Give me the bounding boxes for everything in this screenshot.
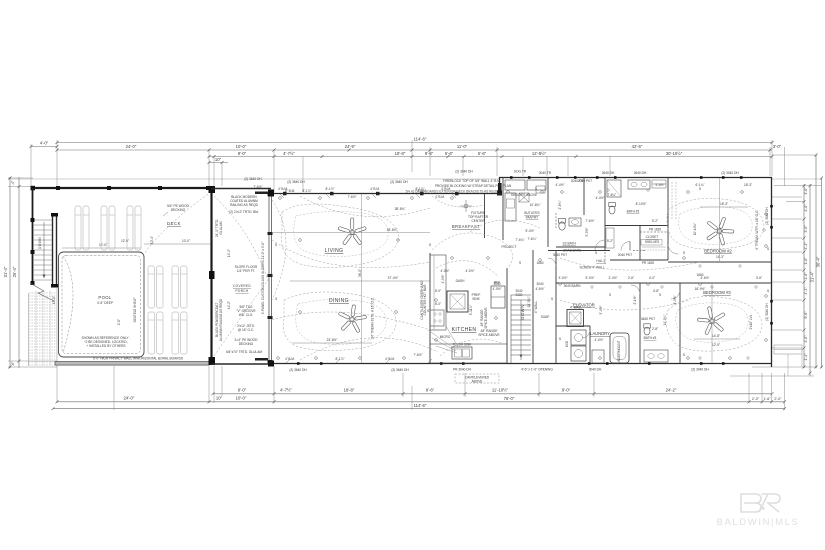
arc bedroom3 blob xyxy=(666,297,762,352)
vertical dim line through living/dining xyxy=(361,194,363,363)
fan bedroom2 xyxy=(706,217,733,246)
svg-text:24'-0": 24'-0" xyxy=(126,144,137,149)
svg-text:4" WALL: 4" WALL xyxy=(534,301,538,314)
svg-text:GLULAM: GLULAM xyxy=(219,221,223,234)
top right 3'-0" ext verticals xyxy=(784,147,786,186)
svg-text:3040: 3040 xyxy=(493,282,500,286)
svg-text:4'-7½": 4'-7½" xyxy=(283,151,295,156)
arc porch sweeps xyxy=(214,196,268,280)
svg-text:4'-4½": 4'-4½" xyxy=(555,183,564,187)
porch bottom wall segment xyxy=(211,363,271,365)
svg-text:76'-0": 76'-0" xyxy=(504,396,515,401)
svg-text:5'-9½": 5'-9½" xyxy=(599,305,603,314)
svg-text:4'-0½": 4'-0½" xyxy=(492,287,501,291)
svg-text:4'-6" DEEP: 4'-6" DEEP xyxy=(97,301,113,305)
svg-text:BUTLER'S: BUTLER'S xyxy=(524,211,539,215)
svg-text:37'-4½": 37'-4½" xyxy=(388,276,399,280)
bath2 toilet xyxy=(609,206,615,214)
top dim line 4'-0" xyxy=(31,146,57,148)
bath3 vanity xyxy=(644,350,668,362)
svg-text:9'-6": 9'-6" xyxy=(804,311,808,319)
svg-text:8'-10½": 8'-10½" xyxy=(636,202,647,206)
svg-text:HALL: HALL xyxy=(596,259,606,263)
svg-text:ABOVE: ABOVE xyxy=(472,380,483,384)
svg-text:16'-9½": 16'-9½" xyxy=(695,287,706,291)
svg-text:14'-2": 14'-2" xyxy=(227,249,231,257)
fan dining xyxy=(338,305,366,333)
svg-text:30'-10½": 30'-10½" xyxy=(666,151,683,156)
svg-text:PORCH: PORCH xyxy=(235,289,248,293)
svg-text:(2) 3640 DH: (2) 3640 DH xyxy=(289,368,307,372)
elevator shaft xyxy=(567,310,584,327)
right dim ticks xyxy=(803,154,824,375)
svg-text:7'-6¼": 7'-6¼" xyxy=(527,237,536,241)
half bath toilet xyxy=(559,222,565,230)
svg-text:5'-5½": 5'-5½" xyxy=(585,227,589,236)
svg-text:$: $ xyxy=(427,309,429,313)
wall half bath bottom xyxy=(556,246,605,248)
svg-text:(2) 3040 DH: (2) 3040 DH xyxy=(765,207,769,225)
svg-text:SOAP: SOAP xyxy=(541,315,550,319)
house right wall xyxy=(771,177,773,367)
svg-text:$: $ xyxy=(275,243,277,247)
svg-text:4'-1": 4'-1" xyxy=(804,242,808,250)
lounge chairs upper row xyxy=(75,206,141,250)
svg-text:10'-4": 10'-4" xyxy=(150,236,154,244)
svg-text:(2) 3640 DH: (2) 3640 DH xyxy=(244,177,262,181)
arc breakfast to pantry xyxy=(470,220,540,232)
svg-text:5'-8½": 5'-8½" xyxy=(655,183,664,187)
svg-text:LAUNDRY: LAUNDRY xyxy=(590,331,610,336)
top dim line 24'-0" row xyxy=(57,149,772,151)
svg-text:4'-0": 4'-0" xyxy=(804,335,808,343)
misc interior dim row y=285 xyxy=(440,245,544,315)
svg-text:9'-0": 9'-0" xyxy=(562,388,571,393)
svg-text:2'x10" LVL: 2'x10" LVL xyxy=(749,314,753,329)
house bottom wall xyxy=(271,363,772,365)
svg-text:WD. CLG.: WD. CLG. xyxy=(239,313,254,317)
left dim line 26'-4" xyxy=(18,177,20,368)
svg-text:RAILING AS REQD: RAILING AS REQD xyxy=(230,203,259,207)
pool outline xyxy=(59,252,145,357)
svg-text:4'-6" x 1'-0" OPENING: 4'-6" x 1'-0" OPENING xyxy=(521,368,553,372)
stair treads xyxy=(34,220,52,280)
svg-text:CANTILEVER OVERHANG: CANTILEVER OVERHANG xyxy=(420,280,424,320)
svg-text:12'-9": 12'-9" xyxy=(712,343,720,347)
porch posts xyxy=(209,186,216,365)
svg-text:SHELVES: SHELVES xyxy=(645,240,659,244)
svg-text:24'-9": 24'-9" xyxy=(345,144,356,149)
svg-text:31'-4": 31'-4" xyxy=(810,271,815,282)
svg-text:9'-6": 9'-6" xyxy=(425,151,434,156)
left dim ticks xyxy=(9,177,21,369)
svg-text:2640 DH: 2640 DH xyxy=(634,171,647,175)
svg-text:2'-0": 2'-0" xyxy=(774,397,782,401)
deck sweep arc xyxy=(144,194,208,254)
svg-text:ALUMNM RAILING AS REQD: ALUMNM RAILING AS REQD xyxy=(219,298,223,341)
svg-text:4' B.M.: 4' B.M. xyxy=(370,187,380,191)
svg-text:10'-10¼": 10'-10¼" xyxy=(693,223,697,236)
svg-text:3040 DH: 3040 DH xyxy=(589,368,602,372)
svg-text:2'-1½": 2'-1½" xyxy=(633,295,637,304)
svg-text:9'-0": 9'-0" xyxy=(238,151,247,156)
top dim tick marks xyxy=(30,141,774,164)
arc dining bottom sweep xyxy=(300,338,438,360)
svg-text:1'-6": 1'-6" xyxy=(804,272,808,280)
bottom wall window ticks xyxy=(297,362,725,365)
svg-text:DECK: DECK xyxy=(167,221,181,226)
svg-text:$: $ xyxy=(767,247,769,251)
svg-text:18'-8": 18'-8" xyxy=(395,151,406,156)
right wall window ticks xyxy=(770,205,773,325)
svg-text:31'-4": 31'-4" xyxy=(3,266,8,277)
svg-text:$: $ xyxy=(551,297,553,301)
svg-text:3'-0": 3'-0" xyxy=(773,144,782,149)
breakfast arc xyxy=(432,196,484,207)
svg-text:PROJECT: PROJECT xyxy=(502,245,517,249)
svg-text:3040 PKT: 3040 PKT xyxy=(553,253,567,257)
svg-text:8'-1⅞": 8'-1⅞" xyxy=(415,187,424,191)
svg-text:4'-9½": 4'-9½" xyxy=(441,274,445,283)
svg-text:1660: 1660 xyxy=(696,273,703,277)
right dim line 36'-4" xyxy=(815,155,817,368)
deck left wall xyxy=(32,188,34,285)
svg-text:$: $ xyxy=(683,251,685,255)
svg-text:BATH #2: BATH #2 xyxy=(627,210,640,214)
svg-text:$: $ xyxy=(609,293,611,297)
inner arc ring dining xyxy=(296,299,386,344)
svg-text:3'-6": 3'-6" xyxy=(756,276,762,280)
interior door arcs xyxy=(548,240,680,338)
svg-text:DINING: DINING xyxy=(329,298,349,304)
svg-text:3460 PKT: 3460 PKT xyxy=(641,317,655,321)
arc living to dining sweep xyxy=(272,240,430,268)
fridge box xyxy=(491,286,505,308)
svg-text:14'-8": 14'-8" xyxy=(712,334,720,338)
breakfast/butler partition xyxy=(484,194,486,238)
leader ticks row along top wall xyxy=(280,194,456,363)
pool inner water line xyxy=(62,256,141,354)
hall misc marks xyxy=(591,189,765,359)
svg-text:$: $ xyxy=(767,289,769,293)
wall elevator lobby xyxy=(556,325,590,327)
washer dryer xyxy=(571,330,586,345)
svg-text:7'-6¼": 7'-6¼" xyxy=(515,238,524,242)
right dim line inner xyxy=(803,184,805,368)
svg-text:4' B.M.: 4' B.M. xyxy=(278,187,288,191)
svg-text:42'-6": 42'-6" xyxy=(632,144,643,149)
svg-text:5'-11¾": 5'-11¾" xyxy=(469,305,473,316)
svg-text:COVERED: COVERED xyxy=(233,284,251,288)
svg-text:12'-0": 12'-0" xyxy=(121,239,129,243)
svg-text:SOG TR: SOG TR xyxy=(514,170,527,174)
svg-text:8'-1⅞": 8'-1⅞" xyxy=(302,189,311,193)
svg-text:4'-0": 4'-0" xyxy=(649,276,655,280)
wall closet shelf line xyxy=(640,231,668,233)
hall extra texts xyxy=(536,196,703,315)
top wall jog xyxy=(499,177,501,194)
svg-text:1'-6": 1'-6" xyxy=(804,187,808,195)
svg-text:18'-3": 18'-3" xyxy=(744,183,752,187)
bath2 vanity xyxy=(628,180,650,189)
lounge chairs right of pool xyxy=(148,266,187,354)
svg-text:4'-0½": 4'-0½" xyxy=(594,338,603,342)
svg-text:6'-1¼": 6'-1¼" xyxy=(695,183,704,187)
svg-text:1660: 1660 xyxy=(536,261,543,265)
closet rod lines xyxy=(642,247,666,250)
svg-text:7'-6½": 7'-6½" xyxy=(585,219,594,223)
svg-text:36'-4": 36'-4" xyxy=(816,256,821,267)
wall butlers pantry left xyxy=(502,177,504,240)
svg-text:4'-0": 4'-0" xyxy=(804,204,808,212)
svg-text:CENTER: CENTER xyxy=(471,219,485,223)
svg-text:36'-0": 36'-0" xyxy=(358,269,362,277)
svg-text:5'-6": 5'-6" xyxy=(445,151,454,156)
svg-text:GRAB BARS: GRAB BARS xyxy=(563,249,582,253)
svg-text:LIVING: LIVING xyxy=(325,248,344,254)
right dim line outer xyxy=(821,178,823,368)
svg-text:5'-6": 5'-6" xyxy=(478,151,487,156)
svg-text:8'-0": 8'-0" xyxy=(435,302,441,306)
wall hall top xyxy=(548,250,610,252)
kitchen island xyxy=(447,291,468,312)
svg-text:18'-3": 18'-3" xyxy=(720,202,728,206)
svg-text:9'-0": 9'-0" xyxy=(238,388,247,393)
logo B xyxy=(741,494,761,512)
svg-text:24" TREAM JSTS. A 16" O.C.: 24" TREAM JSTS. A 16" O.C. xyxy=(371,297,375,339)
svg-text:5'-4½": 5'-4½" xyxy=(525,229,534,233)
vertical dim line bedroom2 xyxy=(718,178,720,262)
svg-text:24'-0": 24'-0" xyxy=(124,395,135,400)
svg-text:2'-4½": 2'-4½" xyxy=(608,276,617,280)
kitchen counters left xyxy=(430,255,446,330)
wall bath3/bedroom3 xyxy=(679,283,681,363)
svg-text:3040 TR: 3040 TR xyxy=(539,171,552,175)
top dimension labels xyxy=(40,137,782,162)
svg-text:1/4" PER FT.: 1/4" PER FT. xyxy=(237,269,255,273)
svg-text:CLOSET: CLOSET xyxy=(646,235,659,239)
kitchen bottom counter xyxy=(430,344,507,363)
logo dot xyxy=(762,507,765,510)
inner arc ring bedroom3 xyxy=(676,303,748,342)
svg-text:14'-0¾": 14'-0¾" xyxy=(663,315,667,326)
wall bath2 left xyxy=(604,177,606,250)
svg-text:2'-6": 2'-6" xyxy=(628,276,634,280)
vertical dim line bedroom3 xyxy=(711,283,713,363)
fan living xyxy=(338,218,367,245)
arc living blob xyxy=(281,204,398,268)
svg-text:7'-6½": 7'-6½" xyxy=(253,185,262,189)
pantry counter left xyxy=(505,193,516,221)
svg-text:2640 DH: 2640 DH xyxy=(602,171,615,175)
svg-text:KITCHEN: KITCHEN xyxy=(452,327,477,333)
svg-text:$: $ xyxy=(275,297,277,301)
svg-text:114'-6": 114'-6" xyxy=(414,403,427,408)
svg-text:BEDROOM #2: BEDROOM #2 xyxy=(704,249,732,254)
svg-text:$: $ xyxy=(519,261,521,265)
svg-text:18'-8": 18'-8" xyxy=(344,388,355,393)
svg-text:2'-0": 2'-0" xyxy=(752,397,760,401)
svg-text:12'-8½": 12'-8½" xyxy=(532,151,547,156)
svg-text:-4": -4" xyxy=(11,180,15,185)
SE corner stoop xyxy=(774,345,802,376)
pool curved water edge xyxy=(63,256,73,353)
wall bedroom2 bottom xyxy=(668,261,772,263)
corner jamb black xyxy=(498,183,502,193)
bottom dim line row3 total xyxy=(53,408,785,410)
svg-text:8'-1⅞": 8'-1⅞" xyxy=(325,187,334,191)
left dim line 31'-4" xyxy=(9,177,11,368)
bedroom2 closet dashes xyxy=(672,182,676,220)
wall half bath right xyxy=(583,177,585,215)
svg-text:BEDROOM #3: BEDROOM #3 xyxy=(703,290,731,295)
exterior stair rails xyxy=(53,215,57,287)
svg-text:SPICE ABOVE: SPICE ABOVE xyxy=(478,333,499,337)
bath2 door arc xyxy=(621,242,630,251)
wall kitchen/stair xyxy=(506,268,508,363)
svg-text:$: $ xyxy=(683,353,685,357)
svg-text:(2) 3040 DH: (2) 3040 DH xyxy=(721,171,739,175)
svg-text:SINK: SINK xyxy=(472,297,480,301)
NW house corner block xyxy=(268,190,274,197)
svg-text:1'-4": 1'-4" xyxy=(804,353,808,361)
svg-text:(2) 3040 DH: (2) 3040 DH xyxy=(455,170,473,174)
svg-text:7'-6½": 7'-6½" xyxy=(347,195,356,199)
hall dim row xyxy=(558,276,762,280)
svg-text:8'-0": 8'-0" xyxy=(435,289,441,293)
svg-text:MICRO: MICRO xyxy=(440,335,451,339)
svg-text:BALDWIN|MLS: BALDWIN|MLS xyxy=(717,517,800,528)
svg-text:4'-8": 4'-8" xyxy=(653,289,659,293)
house top wall (living, glass) xyxy=(271,193,500,195)
svg-text:DASH: DASH xyxy=(456,279,466,283)
bottom dimension labels xyxy=(124,388,783,408)
inner arc ring bedroom2 xyxy=(679,207,753,244)
wall butlers pantry right xyxy=(547,177,549,247)
svg-text:FIREBLOCK TOP OF 3/4" WALL: FIREBLOCK TOP OF 3/4" WALL 4" B.M. xyxy=(443,179,501,183)
stair bottom rail arrow xyxy=(520,300,522,360)
house top wall (right section) xyxy=(499,177,772,179)
svg-text:PR 1620: PR 1620 xyxy=(642,261,655,265)
svg-text:2'-8¾": 2'-8¾" xyxy=(558,200,562,209)
svg-text:5'-2": 5'-2" xyxy=(652,219,658,223)
svg-text:4'-0": 4'-0" xyxy=(40,141,49,146)
svg-text:4'-7½": 4'-7½" xyxy=(280,388,292,393)
wall closet bottom xyxy=(610,259,668,261)
svg-text:1/2 BATH: 1/2 BATH xyxy=(562,242,576,246)
laundry counter xyxy=(592,350,604,363)
svg-text:2040 PKT: 2040 PKT xyxy=(578,179,592,183)
arc dining blob xyxy=(283,292,396,351)
deck railing posts xyxy=(31,186,211,191)
svg-text:10'-0": 10'-0" xyxy=(236,395,247,400)
inner arc ring living xyxy=(294,211,388,256)
wall laundry/bath3 divider xyxy=(639,283,641,363)
svg-text:3040 BARN: 3040 BARN xyxy=(564,284,582,288)
pantry sink xyxy=(507,199,515,208)
svg-text:10": 10" xyxy=(216,395,223,400)
svg-text:SGD: SGD xyxy=(516,293,524,297)
wall hall left / elevator xyxy=(555,250,557,363)
bottom dim line row2 xyxy=(57,401,785,403)
svg-text:(2) 3640 DH: (2) 3640 DH xyxy=(287,180,305,184)
svg-text:+ INSTALLED BY OTHERS: + INSTALLED BY OTHERS xyxy=(86,344,125,348)
wall hall bottom xyxy=(556,282,680,284)
svg-text:DECKING: DECKING xyxy=(239,342,254,346)
bottom dim line row1 xyxy=(213,393,772,395)
top wall window ticks right xyxy=(510,176,743,179)
fan bedroom3 xyxy=(697,306,725,334)
svg-text:$: $ xyxy=(659,293,661,297)
bath3 toilet xyxy=(644,327,650,335)
svg-text:5'-0½": 5'-0½" xyxy=(585,276,594,280)
svg-text:12'-0": 12'-0" xyxy=(99,243,107,247)
svg-text:(2) 3640 DH: (2) 3640 DH xyxy=(391,368,409,372)
svg-text:2'-8": 2'-8" xyxy=(652,327,658,331)
svg-text:5/4"x74" TRTD. GLULAM: 5/4"x74" TRTD. GLULAM xyxy=(226,350,262,354)
pantry extra marks xyxy=(519,186,545,202)
arc living top sweep xyxy=(300,196,430,217)
left extension horizontals xyxy=(8,178,57,367)
svg-text:3'-0": 3'-0" xyxy=(804,225,808,233)
svg-text:26'-4": 26'-4" xyxy=(12,266,17,277)
breakfast bay extra xyxy=(460,200,472,212)
svg-text:11'-0": 11'-0" xyxy=(457,144,468,149)
svg-text:PR 3040 DH: PR 3040 DH xyxy=(453,368,472,372)
top band extra texts xyxy=(514,170,752,242)
svg-text:14'-5¾": 14'-5¾" xyxy=(527,297,531,308)
svg-text:1'-6": 1'-6" xyxy=(763,397,771,401)
svg-text:UNDERMOUNT: UNDERMOUNT xyxy=(617,340,621,363)
wall closet/bedroom2 xyxy=(667,177,669,260)
wall stair right xyxy=(532,250,534,363)
svg-text:W/D: W/D xyxy=(565,340,569,347)
svg-text:DECKING: DECKING xyxy=(171,208,186,212)
right dim line 31'-4" xyxy=(809,184,811,376)
top dim line long lower row xyxy=(209,156,772,158)
wall kitchen counter line xyxy=(429,253,431,363)
svg-text:SPICE ABOVE: SPICE ABOVE xyxy=(484,307,488,328)
svg-text:9'-6": 9'-6" xyxy=(426,388,435,393)
svg-text:(2) 2'x12' TRTD. BM.: (2) 2'x12' TRTD. BM. xyxy=(229,210,259,214)
svg-text:SHELVES ABOVE: SHELVES ABOVE xyxy=(511,193,537,197)
top dim extension verticals xyxy=(31,140,772,192)
svg-text:PANTRY: PANTRY xyxy=(526,216,540,220)
lower ramp louver area xyxy=(29,291,57,366)
arc kitchen breakfast xyxy=(432,233,513,268)
svg-text:3'-3½": 3'-3½" xyxy=(673,295,677,304)
deck top railing wall xyxy=(32,187,211,189)
porch top wall segment xyxy=(211,188,271,190)
svg-text:2040 PKT: 2040 PKT xyxy=(618,253,632,257)
svg-text:$: $ xyxy=(699,187,701,191)
svg-text:38'-8¾": 38'-8¾" xyxy=(387,228,398,232)
wall bath2 bottom / closet top xyxy=(605,225,668,227)
svg-text:DOWN: DOWN xyxy=(38,237,42,249)
kitchen sink xyxy=(452,347,472,359)
wall laundry left lower xyxy=(589,326,591,363)
svg-text:4' B.M.: 4' B.M. xyxy=(435,195,445,199)
svg-text:4'-4½": 4'-4½" xyxy=(595,196,604,200)
svg-text:10": 10" xyxy=(215,157,222,162)
porch right glass wall (house sliders) xyxy=(269,193,272,363)
svg-text:(2) 3640 DH: (2) 3640 DH xyxy=(390,180,408,184)
logo R xyxy=(759,494,780,512)
svg-text:4" WALL: 4" WALL xyxy=(570,306,583,310)
svg-text:(2) 3040 DH: (2) 3040 DH xyxy=(765,303,769,321)
half bath sink xyxy=(569,218,581,226)
svg-text:T-6¼": T-6¼" xyxy=(608,193,616,197)
